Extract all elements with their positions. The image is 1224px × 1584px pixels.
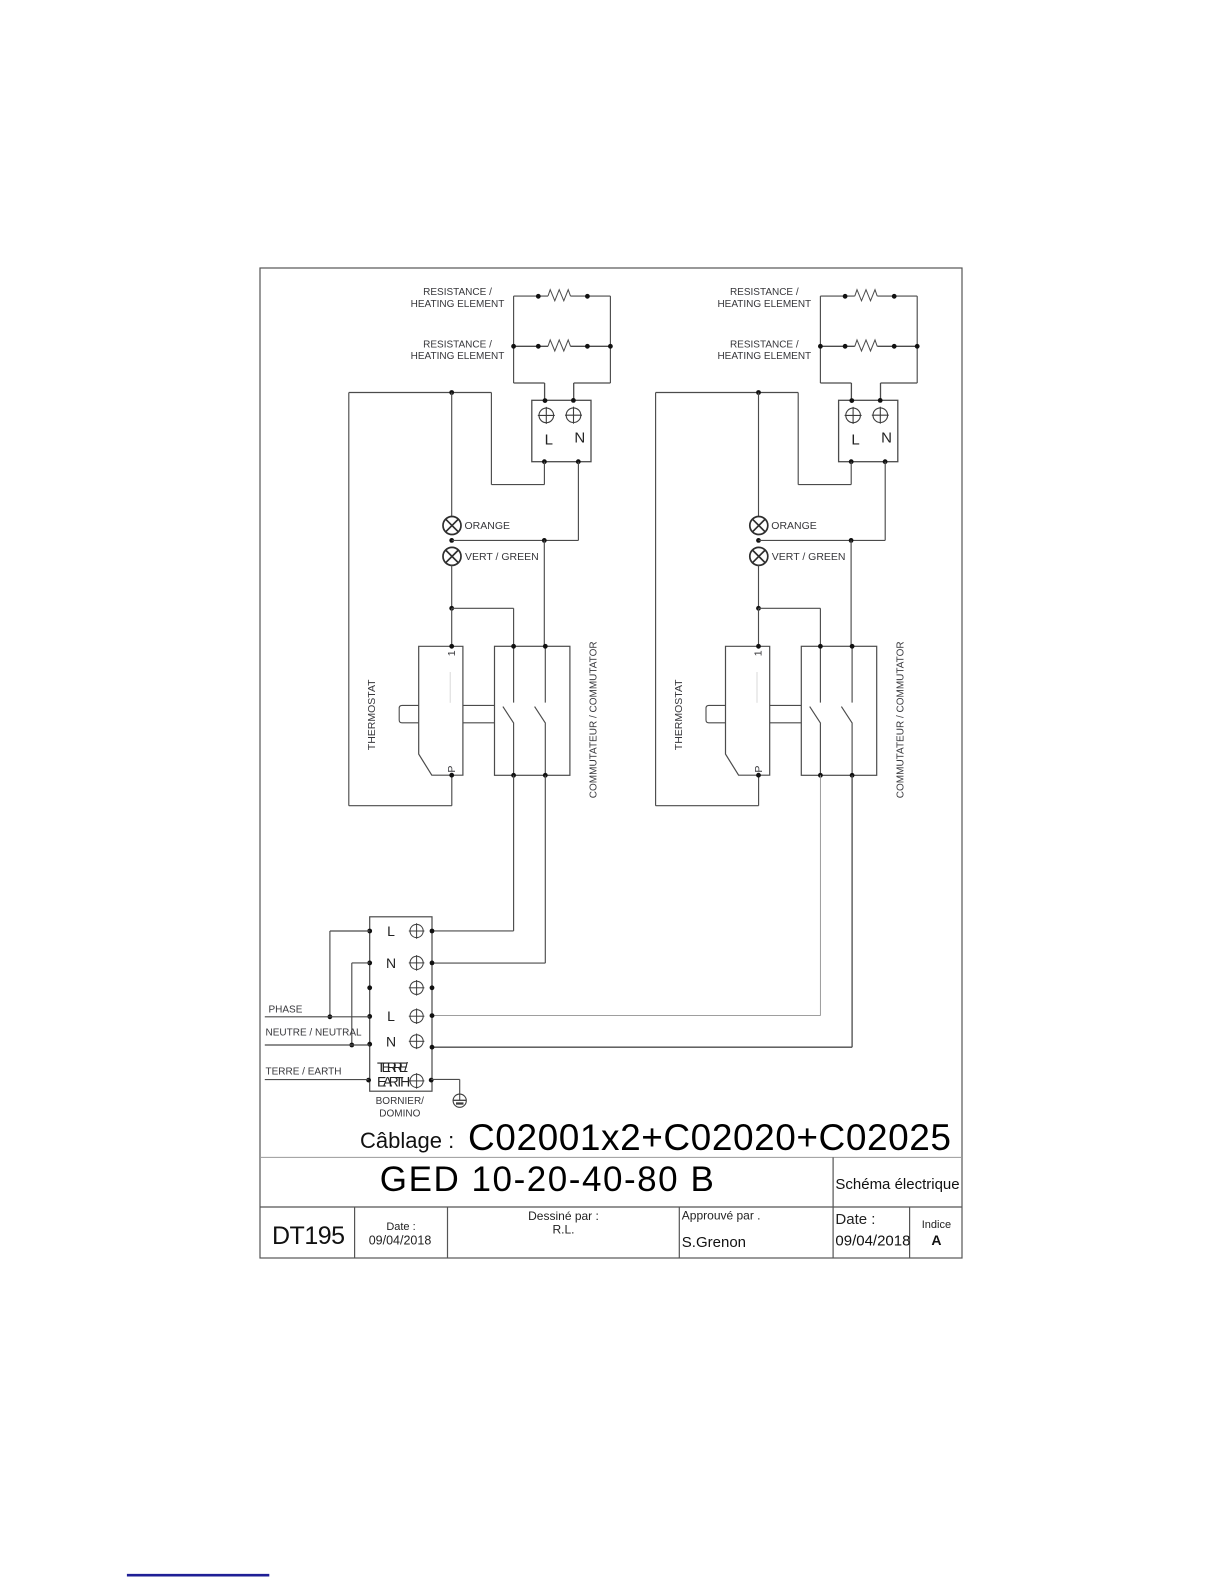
title block bottom row divider <box>678 1207 680 1258</box>
wire right R1 left lead <box>820 295 854 297</box>
wire left to commutator switch 1 <box>452 607 514 609</box>
pin right commutator 1 bottom <box>818 773 823 778</box>
junction right top rail / lamp branch <box>756 390 761 395</box>
svg-text:GED 10-20-40-80 B: GED 10-20-40-80 B <box>380 1160 714 1199</box>
terminal right L screw <box>845 407 862 424</box>
switch left commutator pole 2 <box>535 646 546 775</box>
wire right resistor-loop left vertical <box>819 296 821 383</box>
terminal block left L-N connector <box>532 400 591 461</box>
resistor right heating element R2 <box>855 340 877 351</box>
wire right N bottom drop <box>884 462 886 541</box>
node left R1 left terminal <box>536 294 541 299</box>
svg-text:Date :: Date : <box>386 1221 415 1233</box>
switch right commutator pole 1 <box>810 646 821 775</box>
wire right loop bottom to N <box>881 382 918 384</box>
wire left under L-N box <box>491 484 544 486</box>
wire left rail drop right <box>490 393 492 485</box>
resistor left heating element R1 <box>548 290 571 301</box>
pin left thermostat P <box>449 773 454 778</box>
wire left loop bottom to N <box>574 382 611 384</box>
svg-text:COMMUTATEUR / COMMUTATOR: COMMUTATEUR / COMMUTATOR <box>895 641 906 798</box>
svg-text:L: L <box>387 923 395 939</box>
wire bornier L1 to phase riser <box>330 930 370 932</box>
wire left commutator2 to bornier N1 <box>544 775 546 963</box>
pin bornier L1 right <box>430 929 435 934</box>
svg-text:Approuvé par .: Approuvé par . <box>682 1209 761 1223</box>
wire right rail drop right <box>797 393 799 485</box>
pin left commutator 1 top <box>511 644 516 649</box>
node right R1 right terminal <box>892 294 897 299</box>
pin right L bottom <box>849 459 854 464</box>
svg-text:A: A <box>931 1232 941 1248</box>
title block separator line 1 <box>260 1156 962 1158</box>
pin bornier R3 right <box>430 985 435 990</box>
commutator right box <box>801 646 876 775</box>
wire left commutator1 to bornier L1 <box>513 775 515 931</box>
svg-text:HEATING ELEMENT: HEATING ELEMENT <box>411 299 505 310</box>
svg-text:09/04/2018: 09/04/2018 <box>835 1232 910 1249</box>
node right R2 left terminal <box>843 344 848 349</box>
junction phase line <box>328 1014 333 1019</box>
pin bornier L1 left <box>367 929 372 934</box>
title block separator line 2 <box>260 1206 962 1208</box>
svg-text:L: L <box>387 1008 395 1024</box>
wire right drop to N terminal <box>880 383 882 400</box>
node left R1 right terminal <box>585 294 590 299</box>
svg-text:1: 1 <box>753 650 765 656</box>
wire right lamp node to N drop <box>759 539 886 541</box>
svg-text:HEATING ELEMENT: HEATING ELEMENT <box>717 299 811 310</box>
wire left N bottom drop <box>577 462 579 541</box>
svg-text:R.L.: R.L. <box>552 1222 574 1236</box>
wire left resistor-loop left vertical <box>513 296 515 383</box>
wire left up to L bottom <box>543 462 545 485</box>
junction left lamp / thermostat pin 1 <box>449 606 454 611</box>
pin left commutator 1 bottom <box>511 773 516 778</box>
svg-text:09/04/2018: 09/04/2018 <box>369 1233 432 1247</box>
svg-text:NEUTRE / NEUTRAL: NEUTRE / NEUTRAL <box>266 1027 363 1038</box>
wire right commutator2 to bornier N2 <box>851 775 853 1047</box>
svg-text:S.Grenon: S.Grenon <box>682 1234 746 1251</box>
wire drop to ground symbol <box>459 1079 461 1100</box>
pin right N top <box>878 398 883 403</box>
wire left drop to L terminal <box>544 383 546 400</box>
svg-text:Date :: Date : <box>835 1211 875 1228</box>
junction right loop-left / R2 <box>818 344 823 349</box>
terminal bornier L1 screw <box>409 923 425 939</box>
terminal bornier E screw <box>409 1073 425 1089</box>
svg-text:N: N <box>386 955 396 971</box>
ground earth symbol <box>453 1094 467 1107</box>
wire left R2 right lead <box>571 345 611 347</box>
pin left L top <box>543 398 548 403</box>
thermostat right internal contact line <box>756 672 758 703</box>
svg-text:Indice: Indice <box>922 1219 951 1231</box>
thermostat right body <box>726 646 770 775</box>
wire left loop bottom to L <box>514 382 545 384</box>
wire left drop to switch 1 <box>513 608 515 646</box>
svg-text:P: P <box>446 766 458 773</box>
wire right resistor-loop right vertical <box>916 296 918 383</box>
pin bornier N1 left <box>367 961 372 966</box>
svg-text:HEATING ELEMENT: HEATING ELEMENT <box>717 351 811 362</box>
svg-text:PHASE: PHASE <box>269 1005 303 1016</box>
svg-text:N: N <box>574 429 585 446</box>
wire right drop to switch 1 <box>819 608 821 646</box>
pin right thermostat P <box>756 773 761 778</box>
junction left loop-right / R2 <box>608 344 613 349</box>
decorative blue underline bottom-left <box>127 1574 269 1577</box>
wire right drop to switch 2 <box>850 540 852 646</box>
wire right R2 right lead <box>877 345 917 347</box>
pin bornier L2 right <box>430 1013 435 1018</box>
wire to bornier N1 right <box>432 962 545 964</box>
resistor right heating element R1 <box>855 290 877 301</box>
svg-text:DOMINO: DOMINO <box>379 1109 420 1120</box>
wire right to orange lamp <box>758 393 760 517</box>
wire right top rail <box>656 392 799 394</box>
wire left R1 right lead <box>571 295 611 297</box>
pin left commutator 2 bottom <box>543 773 548 778</box>
svg-text:L: L <box>545 432 553 449</box>
switch left commutator pole 1 <box>503 646 514 775</box>
terminal strip bornier/domino box <box>370 917 432 1091</box>
wire right R1 right lead <box>877 295 917 297</box>
wire TERRE input line <box>265 1079 369 1081</box>
wire left green lamp down <box>451 565 453 608</box>
drawing frame border <box>260 268 962 1258</box>
svg-text:EARTH: EARTH <box>377 1074 409 1090</box>
wire to bornier N2 right <box>432 1046 852 1048</box>
lamp right ORANGE <box>750 517 768 535</box>
svg-text:TERRE / EARTH: TERRE / EARTH <box>266 1067 342 1078</box>
wire left drop to N terminal <box>573 383 575 400</box>
svg-text:DT195: DT195 <box>272 1222 345 1250</box>
pin right thermostat 1 <box>756 644 761 649</box>
pin left commutator 2 top <box>543 644 548 649</box>
svg-text:ORANGE: ORANGE <box>465 520 511 532</box>
switch right commutator pole 2 <box>841 646 852 775</box>
title block bottom row divider <box>909 1207 911 1258</box>
junction left below orange lamp <box>449 538 454 543</box>
svg-text:P: P <box>753 766 765 773</box>
wire left R1 left lead <box>514 295 548 297</box>
junction right lamp node / commutator 2 <box>849 538 854 543</box>
junction left loop-left / R2 <box>511 344 516 349</box>
svg-text:TERRE/: TERRE/ <box>377 1059 408 1075</box>
svg-text:BORNIER/: BORNIER/ <box>376 1096 425 1107</box>
wire right up to thermostat P <box>758 775 760 806</box>
svg-text:L: L <box>851 432 859 449</box>
wire left left rail <box>348 393 350 806</box>
svg-text:ORANGE: ORANGE <box>771 520 817 532</box>
pin left N bottom <box>576 459 581 464</box>
wire left resistor-loop right vertical <box>609 296 611 383</box>
pin left thermostat 1 <box>449 644 454 649</box>
pin bornier N2 right <box>430 1045 435 1050</box>
junction neutral line <box>349 1043 354 1048</box>
svg-text:Câblage :: Câblage : <box>360 1128 454 1153</box>
pin bornier N1 right <box>430 961 435 966</box>
pin left N top <box>571 398 576 403</box>
svg-text:1: 1 <box>446 650 458 656</box>
wire NEUTRE input line <box>265 1044 370 1046</box>
wire left drop to thermostat pin 1 <box>451 608 453 646</box>
pin bornier E left <box>366 1078 371 1083</box>
terminal bornier N1 screw <box>409 955 425 971</box>
svg-text:COMMUTATEUR / COMMUTATOR: COMMUTATEUR / COMMUTATOR <box>589 641 600 798</box>
svg-text:VERT / GREEN: VERT / GREEN <box>465 551 539 563</box>
wire left up to thermostat P <box>451 775 453 806</box>
pin bornier L2 left <box>367 1014 372 1019</box>
svg-text:RESISTANCE /: RESISTANCE / <box>423 287 492 298</box>
wire right drop to L terminal <box>850 383 852 400</box>
junction left lamp node / commutator 2 <box>542 538 547 543</box>
title block vertical schema cell <box>832 1157 834 1207</box>
title block bottom row divider <box>447 1207 449 1258</box>
junction right below orange lamp <box>756 538 761 543</box>
wire right green lamp down <box>758 565 760 608</box>
svg-text:N: N <box>881 429 892 446</box>
node right R2 right terminal <box>892 344 897 349</box>
svg-text:Schéma électrique: Schéma électrique <box>835 1176 959 1193</box>
wire left top rail <box>349 392 492 394</box>
wire bornier N1 to neutral riser <box>352 962 370 964</box>
terminal block right L-N connector <box>839 400 898 461</box>
wire left R2 left lead <box>514 345 548 347</box>
pin left L bottom <box>542 459 547 464</box>
node left R2 left terminal <box>536 344 541 349</box>
wire left to orange lamp <box>451 393 453 517</box>
svg-text:HEATING ELEMENT: HEATING ELEMENT <box>411 351 505 362</box>
shaft left thermostat actuator link <box>399 705 494 722</box>
resistor left heating element R2 <box>548 340 571 351</box>
lamp left VERT/GREEN <box>443 547 461 565</box>
wire neutral riser <box>351 963 353 1045</box>
wire right bottom rail to P <box>656 805 759 807</box>
pin right commutator 2 top <box>850 644 855 649</box>
terminal right N screw <box>872 407 889 424</box>
svg-text:N: N <box>386 1033 396 1049</box>
lamp right VERT/GREEN <box>750 547 768 565</box>
junction right lamp / thermostat pin 1 <box>756 606 761 611</box>
wire right left rail <box>655 393 657 806</box>
wire right to commutator switch 1 <box>759 607 821 609</box>
lamp left ORANGE <box>443 517 461 535</box>
svg-text:VERT / GREEN: VERT / GREEN <box>772 551 846 563</box>
svg-text:THERMOSTAT: THERMOSTAT <box>366 679 378 750</box>
wire right loop bottom to L <box>820 382 851 384</box>
pin bornier R3 left <box>367 985 372 990</box>
terminal left N screw <box>565 407 582 424</box>
commutator left box <box>495 646 570 775</box>
terminal bornier R3 screw <box>409 980 425 996</box>
wire left bottom rail to P <box>349 805 452 807</box>
svg-text:Dessiné par :: Dessiné par : <box>528 1209 599 1223</box>
shaft right thermostat actuator link <box>706 705 801 722</box>
wire left lamp node to N drop <box>452 539 579 541</box>
pin right L top <box>849 398 854 403</box>
svg-text:RESISTANCE /: RESISTANCE / <box>423 339 492 350</box>
wire left drop to switch 2 <box>543 540 545 646</box>
pin bornier N2 left <box>367 1042 372 1047</box>
wire to bornier L1 right <box>432 930 514 932</box>
pin right commutator 2 bottom <box>850 773 855 778</box>
wire earth terminal to ground <box>431 1078 460 1080</box>
terminal bornier L2 screw <box>409 1008 425 1024</box>
wire PHASE input line <box>265 1016 370 1018</box>
terminal left L screw <box>538 407 555 424</box>
title block bottom row divider <box>354 1207 356 1258</box>
wire right up to L bottom <box>850 462 852 485</box>
svg-text:RESISTANCE /: RESISTANCE / <box>730 339 799 350</box>
thermostat left internal contact line <box>449 672 451 703</box>
svg-text:C02001x2+C02020+C02025: C02001x2+C02020+C02025 <box>468 1117 951 1158</box>
wire right R2 left lead <box>820 345 854 347</box>
pin right commutator 1 top <box>818 644 823 649</box>
title block bottom row divider <box>832 1207 834 1258</box>
pin bornier E right <box>429 1078 434 1083</box>
terminal bornier N2 screw <box>409 1034 425 1050</box>
node left R2 right terminal <box>585 344 590 349</box>
pin right N bottom <box>883 459 888 464</box>
wire phase riser <box>329 931 331 1017</box>
thermostat left body <box>419 646 463 775</box>
svg-text:THERMOSTAT: THERMOSTAT <box>673 679 685 750</box>
junction right loop-right / R2 <box>915 344 920 349</box>
wire to bornier L2 right <box>432 1015 820 1017</box>
node right R1 left terminal <box>843 294 848 299</box>
svg-text:RESISTANCE /: RESISTANCE / <box>730 287 799 298</box>
wire right commutator1 to bornier L2 <box>819 775 821 1015</box>
wire right drop to thermostat pin 1 <box>758 608 760 646</box>
wire right under L-N box <box>798 484 851 486</box>
junction left top rail / lamp branch <box>449 390 454 395</box>
